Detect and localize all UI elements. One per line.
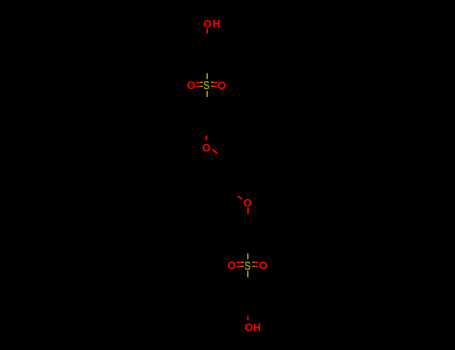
svg-text:O: O: [227, 260, 236, 272]
svg-text:O: O: [202, 143, 211, 155]
svg-text:H: H: [253, 322, 261, 334]
svg-text:O: O: [259, 260, 268, 272]
svg-text:O: O: [187, 80, 196, 92]
svg-text:S: S: [203, 79, 209, 93]
svg-text:O: O: [217, 80, 226, 92]
svg-text:H: H: [212, 18, 220, 30]
